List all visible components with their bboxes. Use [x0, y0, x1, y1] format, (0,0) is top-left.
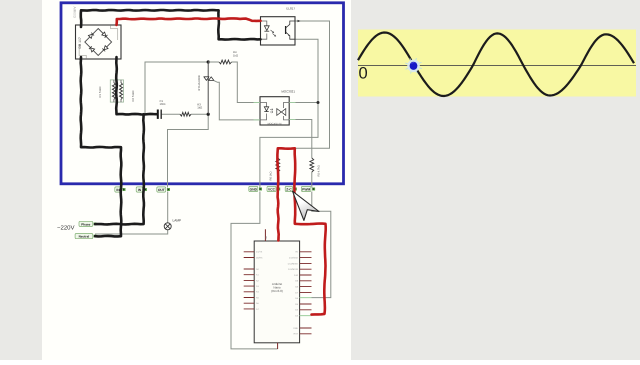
wire: triac gate to MOC3021 pin 6 [214, 81, 260, 120]
terminal Neutral [75, 234, 96, 239]
svg-text:R5 4.7kΩ: R5 4.7kΩ [317, 165, 320, 176]
svg-text:0: 0 [359, 65, 368, 83]
svg-text:10nF: 10nF [160, 102, 167, 106]
svg-text:1kΩ: 1kΩ [197, 105, 202, 109]
mouse cursor [293, 191, 320, 220]
svg-text:D11/MOSI: D11/MOSI [288, 268, 298, 271]
Arduino left pin row [244, 252, 255, 309]
connector IN 1 [115, 187, 122, 192]
svg-text:VIN: VIN [265, 235, 268, 239]
bridge rectifier DB107 [76, 25, 122, 59]
Arduino right pin row [300, 252, 312, 310]
pin arrow EL817 collector [298, 20, 301, 23]
wire: red VCC to Arduino 5V [278, 191, 279, 241]
wire: PWM pin to Arduino D3 [312, 192, 331, 298]
svg-text:1kΩ: 1kΩ [233, 53, 238, 57]
axis zero line [358, 64, 636, 66]
resistor R5 4.7k [310, 158, 320, 177]
wire: MOC3021 pin 4 to junction [289, 102, 318, 104]
zero-cross marker splash [405, 58, 422, 73]
terminal Phase [79, 221, 96, 226]
connector GND [249, 186, 258, 191]
triac Q1 BTA16-600B [198, 62, 214, 114]
svg-text:R6 1kΩ: R6 1kΩ [270, 171, 273, 180]
wire: C1 lead to R3 [161, 113, 180, 115]
svg-text:D13/SCK: D13/SCK [289, 257, 299, 260]
svg-text:BTA16-600B: BTA16-600B [198, 75, 201, 90]
svg-text:DB 107: DB 107 [78, 37, 82, 48]
resistor R4 1k [208, 50, 238, 64]
lamp LAMP [164, 219, 181, 230]
svg-text:Z-C: Z-C [286, 187, 292, 191]
wire: R4 to MOC3021 anode [232, 62, 261, 103]
svg-text:MOC3021-M: MOC3021-M [268, 122, 282, 125]
svg-text:D0/RX: D0/RX [256, 256, 263, 259]
svg-text:EL817: EL817 [286, 6, 295, 10]
svg-text:PWM: PWM [302, 187, 310, 191]
oscilloscope yellow panel [358, 30, 636, 97]
svg-text:GND: GND [250, 187, 258, 191]
junction: EL817/MOC node [317, 101, 320, 104]
connector OUT [157, 187, 166, 192]
svg-text:D12/MISO: D12/MISO [288, 262, 299, 265]
wire: R6 pullup to VCC pin [277, 148, 279, 187]
wire: GND pin to Arduino GND [231, 192, 278, 349]
wire: OUT pin to lamp [167, 192, 169, 223]
svg-text:MOC3021: MOC3021 [281, 90, 295, 94]
Arduino pin D3 green (PWM net) [300, 297, 312, 299]
wire: mains black bridge AC1 to EL817 cathode [81, 10, 261, 40]
wire: EL817 collector to Z-C node [295, 21, 330, 148]
optocoupler U1 EL817 [261, 6, 296, 45]
svg-text:R1 51kΩ: R1 51kΩ [98, 87, 102, 98]
Arduino bottom pin GND [277, 343, 279, 349]
resistor R3 1k [180, 102, 202, 116]
wire: lamp return to Neutral [95, 230, 168, 234]
svg-text:LAMP: LAMP [173, 219, 182, 223]
connector IN 2 [136, 187, 143, 192]
connector VCC [267, 186, 276, 191]
wire: black bridge minus to C1 [116, 57, 156, 115]
svg-text:GND: GND [293, 327, 298, 330]
svg-text:RST: RST [294, 333, 299, 336]
wire: R5 to PWM pin [311, 172, 313, 188]
svg-text:AIR003: AIR003 [73, 7, 77, 18]
wire: MOC3021 pin 5 to R5 [289, 120, 312, 159]
wire: black Phase to IN [95, 114, 144, 224]
resistor R6 1k pullup [270, 158, 280, 181]
wire: black bridge AC2 to Neutral / IN [81, 57, 122, 236]
svg-text:~220V: ~220V [57, 225, 75, 232]
svg-text:Neutral: Neutral [79, 235, 90, 239]
Arduino Nano U3 [254, 241, 299, 343]
wire: EL817 emitter to GND rail [260, 39, 318, 187]
resistor pair R1 R2 51k [98, 80, 135, 102]
svg-text:(Rev3.0): (Rev3.0) [271, 289, 283, 293]
svg-text:OUT: OUT [158, 188, 165, 192]
wire: R3 to MT2 node [191, 113, 208, 115]
svg-text:Phase: Phase [81, 222, 90, 226]
wire: Z-C pin drop [294, 148, 296, 187]
wire: MT2 node down to OUT pin [168, 114, 209, 187]
connector Z-C [285, 186, 293, 191]
connector PWM [301, 186, 311, 191]
node: triac top junction [207, 60, 210, 63]
Arduino top pins VIN/5V [265, 229, 278, 241]
opto-triac U2 MOC3021 [254, 90, 296, 126]
dimmer module boundary box [61, 3, 344, 184]
svg-text:VCC: VCC [268, 187, 276, 191]
AC sine waveform [358, 33, 634, 97]
schematic white canvas [42, 0, 351, 360]
svg-text:R2 51kΩ: R2 51kΩ [131, 91, 135, 102]
wire: node A horizontal (cap junction to triac top) [145, 62, 208, 114]
wire: red VCC / Z-C loop to Arduino D2 [277, 148, 325, 314]
Arduino pin D2 green (Z-C net) [300, 315, 312, 317]
node: MT2/R3 junction [207, 113, 210, 116]
svg-text:D1/TX: D1/TX [256, 251, 263, 254]
capacitor C1 10nF [158, 99, 166, 119]
Arduino lower right pins GND RST [300, 328, 312, 334]
wire: red bridge plus to EL817 anode [117, 18, 261, 25]
